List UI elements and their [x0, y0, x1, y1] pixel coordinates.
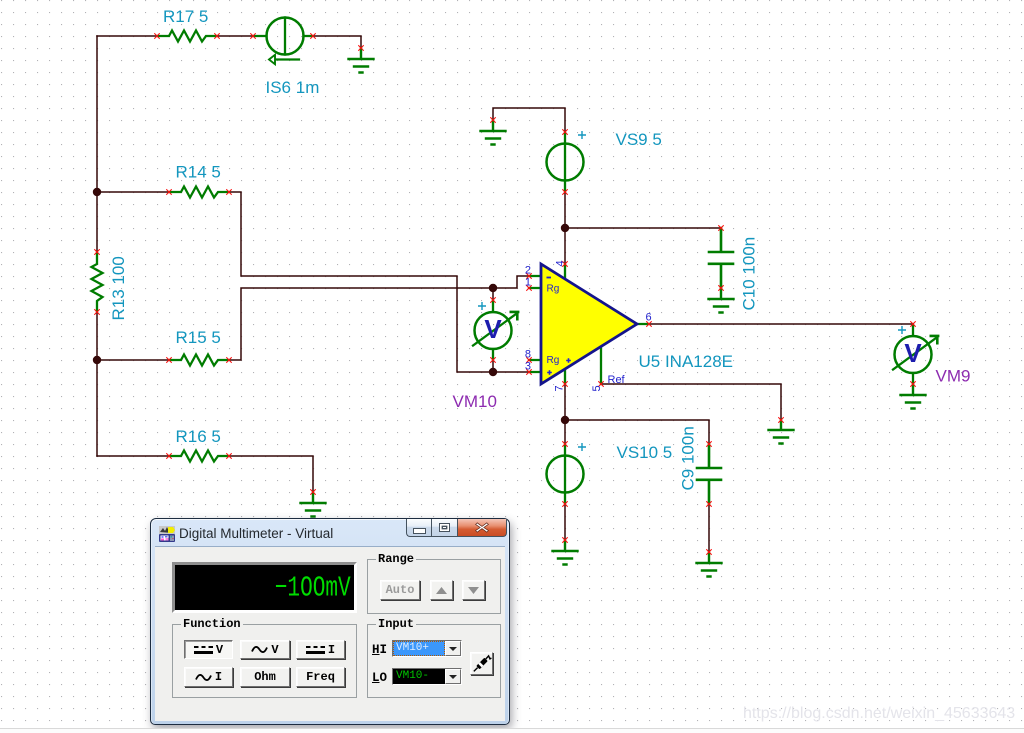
- pin 4: [555, 260, 567, 266]
- wire C9 to ground: [708, 504, 710, 552]
- svg-text:U5 INA128E: U5 INA128E: [639, 352, 734, 371]
- wire pin7 to VS10 and C9: [565, 384, 709, 444]
- label R13 100: [109, 256, 128, 320]
- svg-text:4: 4: [555, 260, 567, 266]
- node junction VM10 top: [489, 284, 497, 292]
- pin label plus bottom: [547, 370, 552, 375]
- node junction VS9/pin4/C10: [561, 224, 569, 232]
- resistor R13: [92, 252, 103, 312]
- pin 8: [525, 349, 531, 361]
- op-amp U5 INA128E body: [541, 264, 637, 384]
- wire Ref pin5 to ground: [601, 384, 781, 420]
- pin 6: [646, 312, 652, 324]
- label VS10 5: [617, 443, 673, 462]
- plus mark VM10: [478, 302, 486, 310]
- label VM9: [936, 367, 971, 386]
- ground Ref: [769, 420, 794, 444]
- pin 2: [525, 265, 531, 277]
- wire R14 to op-amp pin3: [97, 192, 529, 372]
- ground C10: [709, 288, 734, 313]
- voltmeter VM9: [893, 324, 938, 384]
- svg-text:R13 100: R13 100: [109, 256, 128, 320]
- wire R16 to ground: [97, 456, 313, 492]
- current source IS6: [253, 18, 313, 65]
- pin label Rg top: [547, 284, 560, 295]
- pin 5: [591, 385, 603, 391]
- svg-text:5: 5: [591, 385, 603, 391]
- label U5 INA128E: [639, 352, 734, 371]
- node junction pin7/VS10/C9: [561, 416, 569, 424]
- svg-text:2: 2: [525, 265, 531, 277]
- ground R16: [301, 492, 326, 517]
- label VS9 5: [616, 130, 662, 149]
- label R16 5: [176, 427, 221, 446]
- capacitor C10: [709, 228, 733, 288]
- svg-text:7: 7: [554, 385, 566, 391]
- label VM10: [453, 392, 497, 411]
- wire VS9 to pin4 and C10: [565, 192, 721, 264]
- label IS6 1m: [266, 78, 320, 97]
- resistor R16: [169, 451, 229, 462]
- ground C9: [697, 552, 722, 577]
- svg-text:C10 100n: C10 100n: [740, 237, 759, 311]
- plus mark VS10: [578, 443, 586, 451]
- multimeter window: [150, 518, 510, 725]
- voltmeter VM10: [473, 300, 518, 360]
- svg-text:Rg: Rg: [547, 355, 560, 366]
- plus mark VM9: [898, 326, 906, 334]
- pin label Ref: [608, 374, 626, 386]
- svg-text:8: 8: [525, 349, 531, 361]
- resistor R15: [169, 355, 229, 366]
- svg-text:VS9 5: VS9 5: [616, 130, 662, 149]
- pin label Rg bottom: [547, 355, 560, 366]
- node junction R14/left rail: [93, 188, 101, 196]
- voltage source VS10: [547, 444, 584, 504]
- svg-text:R17 5: R17 5: [163, 7, 208, 26]
- wire output pin6 to VM9: [649, 323, 913, 325]
- node junction R15/left rail: [93, 356, 101, 364]
- wire R15 to op-amp pin2: [97, 276, 529, 360]
- label C9 100n: [679, 426, 698, 490]
- svg-text:R15 5: R15 5: [176, 328, 221, 347]
- svg-text:Rg: Rg: [547, 284, 560, 295]
- wire top row: [97, 36, 361, 48]
- pin 1: [525, 277, 531, 289]
- label C10 100n: [740, 237, 759, 311]
- wire VM10 top stub: [492, 288, 494, 300]
- svg-text:R16 5: R16 5: [176, 427, 221, 446]
- ground VM9: [901, 384, 926, 409]
- svg-text:V: V: [904, 338, 922, 368]
- svg-text:3: 3: [525, 361, 531, 373]
- pin 3: [525, 361, 531, 373]
- op-amp U1 pin stubs: [529, 264, 649, 384]
- svg-text:1: 1: [525, 277, 531, 289]
- svg-text:VS10 5: VS10 5: [617, 443, 673, 462]
- label R15 5: [176, 328, 221, 347]
- svg-text:Ref: Ref: [608, 374, 626, 386]
- watermark: [743, 705, 1015, 723]
- ground top right: [349, 48, 374, 73]
- svg-text:VM10: VM10: [453, 392, 497, 411]
- pin label plus mid: [566, 358, 571, 363]
- voltage source VS9: [547, 132, 584, 192]
- resistor R14: [169, 187, 229, 198]
- bottom edge: [0, 728, 1024, 729]
- plus mark VS9: [578, 131, 586, 139]
- label R14 5: [176, 163, 221, 182]
- capacitor C9: [697, 444, 721, 504]
- pin label minus: [547, 277, 552, 279]
- ground VS10: [553, 540, 578, 565]
- svg-text:VM9: VM9: [936, 367, 971, 386]
- pin 7: [554, 385, 566, 391]
- svg-text:V: V: [484, 314, 502, 344]
- terminal x marks: [94, 33, 915, 554]
- resistor R17: [157, 31, 217, 42]
- wire left rail top: [96, 36, 98, 456]
- node junction VM10 bottom: [489, 368, 497, 376]
- svg-text:IS6 1m: IS6 1m: [266, 78, 320, 97]
- label R17 5: [163, 7, 208, 26]
- wire VM10 bottom stub: [492, 360, 494, 372]
- svg-text:6: 6: [646, 312, 652, 324]
- svg-text:R14 5: R14 5: [176, 163, 221, 182]
- svg-text:C9 100n: C9 100n: [679, 426, 698, 490]
- wire VS9 top to ground: [493, 108, 565, 132]
- wire VS10 to ground: [564, 504, 566, 540]
- ground VS9 top: [481, 120, 506, 145]
